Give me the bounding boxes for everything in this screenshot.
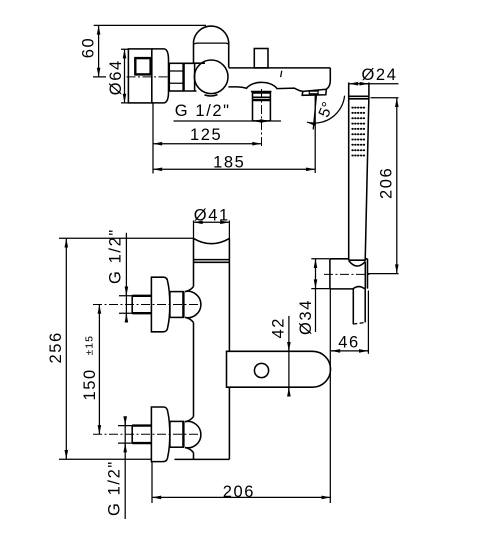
aerator inner [309,91,318,94]
body centerline [127,76,169,78]
handle dome [194,26,229,67]
ext 206 left [151,462,153,504]
svg-text:Ø34: Ø34 [297,299,315,335]
svg-text:Ø41: Ø41 [194,206,230,224]
dim phi64 line [124,49,126,103]
svg-text:60: 60 [80,37,98,59]
wall extension line [152,104,154,174]
svg-text:±15: ±15 [84,335,96,355]
svg-text:42: 42 [269,317,287,339]
dim phi24 line [349,83,399,85]
small mark under circle [205,95,218,96]
cartridge circle [194,60,228,94]
holder left edge [329,259,331,289]
dim 150 line [98,305,100,435]
lower tube end [353,322,365,324]
tube edge behind holder [364,262,366,289]
upper union centerline [93,304,201,306]
dim 125 line [153,143,262,145]
G 1/2 lower ext ticks [118,426,133,444]
tube lower collar [353,287,365,289]
svg-text:206: 206 [378,167,396,199]
holder right edge [367,259,369,289]
lower union body boss [185,417,201,453]
shower head right edge [365,83,369,261]
spray dots [351,107,365,157]
dim phi34 ext [311,259,329,289]
dim 206 line [152,496,331,498]
dim phi34 line [315,259,317,289]
svg-text:G 1/2": G 1/2" [107,228,125,284]
dim 206 ext bottom [368,273,399,275]
connector sleeve [184,63,197,91]
dome seam [194,42,229,45]
body column left edge [193,238,195,459]
dim 46 ext right [367,291,369,354]
dim 60 line [98,25,100,77]
wall escutcheon (top view) [128,49,151,103]
holder wall extension long [329,289,331,503]
G 1/2 upper leader [125,233,127,319]
body column right edge [228,238,230,459]
G 1/2 lower leader [124,423,126,520]
aerator block [302,89,326,95]
diverter knob [254,49,268,68]
holder bottom [330,288,353,290]
body bottom edge [175,458,230,460]
temperature stop square [135,58,150,74]
upper union body boss [185,287,201,323]
svg-text:G 1/2": G 1/2" [106,460,124,516]
svg-text:Ø64: Ø64 [107,59,125,95]
angle 5 deg line [313,94,316,130]
upper union wall pipe [132,296,151,313]
holder top [330,258,368,260]
body seam rings [194,260,230,263]
lower union escutcheon [151,407,169,462]
tube upper cup [349,261,366,266]
tube seam at holder top [349,259,366,261]
body column top arc [194,238,230,243]
lever handle hole [254,363,268,377]
lower union centerline [93,433,201,435]
dim 206 ext top [371,97,399,99]
shower head top [349,96,369,99]
angle vertical reference [314,96,316,174]
lower union wall pipe [132,426,151,444]
dim 256 line [65,238,67,459]
svg-text:150: 150 [81,368,99,400]
dim 185 line [153,168,315,170]
mixer body cap (top view) [152,49,169,103]
ext 256 top [59,237,194,239]
dim 42 line [288,316,290,396]
holder centerline [324,273,371,275]
dim 46 line [331,350,337,352]
shower head left edge [348,83,350,261]
spout top edge [229,67,331,69]
upper union nut [170,292,184,318]
lever handle [227,351,331,387]
ext 256 bottom [59,458,152,460]
lower tube [353,289,365,325]
svg-text:5°: 5° [316,100,337,120]
svg-text:G 1/2": G 1/2" [175,102,231,120]
svg-text:256: 256 [47,331,65,363]
lower union nut [170,421,184,447]
shower outlet flange [251,92,272,94]
G 1/2 arrows [174,120,253,122]
upper union escutcheon [151,277,169,332]
shower outlet pipe [253,92,271,121]
connector hex nut [169,63,183,91]
dim phi41 line [194,221,230,223]
spout right tip and underside [228,68,330,92]
svg-text:125: 125 [190,126,222,144]
angle arc [307,96,345,123]
outlet centerline [261,89,263,147]
svg-text:206: 206 [223,483,255,501]
svg-text:46: 46 [338,334,360,352]
outlet thread band [253,99,271,101]
spout surface tick [281,71,282,77]
dim 206 line [396,98,398,274]
svg-text:Ø24: Ø24 [362,66,398,84]
